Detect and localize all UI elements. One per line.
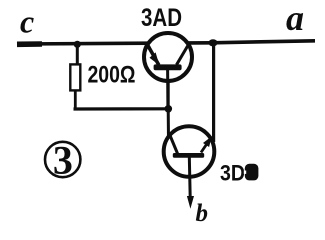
svg-text:b: b: [196, 200, 209, 227]
svg-text:3D: 3D: [220, 161, 245, 186]
svg-text:3: 3: [53, 138, 73, 183]
svg-text:c: c: [20, 4, 34, 40]
svg-text:a: a: [286, 0, 304, 38]
svg-text:200Ω: 200Ω: [88, 62, 136, 89]
svg-text:3AD: 3AD: [141, 4, 182, 32]
